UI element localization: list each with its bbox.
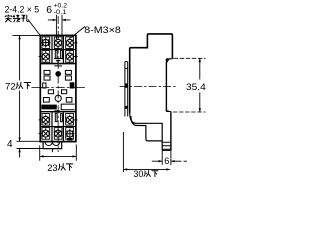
dim 6 side arrows — [152, 160, 187, 162]
center cross below divider — [54, 65, 62, 67]
right face mid — [165, 59, 167, 112]
upper pin squares right — [65, 70, 71, 74]
small tab below band — [54, 110, 60, 112]
dim 23 ext lines — [40, 145, 77, 161]
front face — [129, 48, 131, 114]
T mark below top block — [56, 60, 60, 64]
front view horizontal centerline — [32, 87, 86, 89]
screw row2 left — [42, 51, 49, 62]
top block row divider — [40, 49, 76, 51]
lower pin squares — [43, 98, 49, 103]
foot outline — [43, 142, 62, 149]
body outline — [40, 35, 76, 141]
flange column — [125, 62, 128, 117]
bottom block columns — [52, 112, 63, 142]
svg-text:6: 6 — [46, 4, 52, 16]
svg-text:6: 6 — [164, 156, 169, 166]
bottom slot bars — [55, 114, 57, 122]
top block column dividers — [52, 35, 63, 63]
hook ladder — [162, 142, 171, 149]
dim 6 ext lines — [56, 15, 62, 36]
squares below centerline — [48, 90, 53, 94]
svg-text:23: 23 — [47, 162, 57, 173]
top terminal block bottom edge — [40, 63, 76, 65]
foot arcs — [45, 142, 60, 146]
screw row1 mid — [55, 38, 62, 49]
bottom block top edge — [40, 111, 76, 113]
top slot bars — [55, 50, 57, 58]
center open circle — [55, 95, 61, 101]
left notch rect — [43, 83, 46, 88]
dim 72 line — [19, 35, 21, 141]
dim 4 lower arrow — [19, 149, 21, 158]
screw crosshair edge ticks — [39, 43, 78, 134]
dim 23 line — [40, 155, 77, 157]
side centerline — [120, 86, 177, 88]
step nub at 111.5 — [166, 110, 171, 112]
right filled latch — [70, 83, 74, 88]
mounting hole top-left — [41, 38, 50, 48]
upper pin squares left — [44, 70, 50, 74]
dim 72 top ext — [13, 34, 41, 36]
screw row4 left — [42, 128, 49, 139]
screw row3 left — [42, 115, 49, 126]
screw row2 right — [66, 51, 73, 62]
screw row1 right — [66, 38, 73, 49]
bottom outer contour — [131, 116, 162, 141]
svg-text:4: 4 — [7, 139, 13, 150]
dim 35.4 ext dashes — [173, 58, 206, 112]
dim 35.4 line — [199, 58, 201, 112]
terminal recess rects top block — [42, 37, 50, 49]
tab below mounting hole — [67, 138, 72, 141]
black band — [41, 105, 56, 110]
svg-text:8-M3×8: 8-M3×8 — [84, 24, 121, 35]
outline top — [130, 34, 173, 59]
svg-text:-0.1: -0.1 — [54, 9, 68, 16]
dim 6 side ext lines — [162, 150, 171, 165]
bottom block row divider — [40, 126, 76, 128]
foot center tick — [51, 149, 53, 153]
svg-text:72: 72 — [5, 81, 16, 92]
dim 30 ext line — [122, 132, 124, 172]
front view vertical centerline — [57, 16, 59, 152]
notch + tooth — [166, 58, 172, 60]
svg-text:30: 30 — [133, 169, 143, 179]
back edge lower — [170, 112, 172, 151]
dim 30 line — [123, 168, 170, 170]
center filled circle — [56, 72, 61, 77]
right open shape — [61, 104, 74, 110]
screw row3 right — [66, 115, 73, 126]
slot top opening ticks — [56, 35, 62, 39]
svg-text:35.4: 35.4 — [186, 82, 206, 92]
mounting hole bottom-right — [65, 129, 74, 139]
leader 8-M3x8 — [71, 27, 86, 39]
label 安装孔 — [5, 15, 12, 22]
dim 6 line + arrows — [48, 19, 71, 21]
dim 4 ext lines — [17, 141, 44, 148]
svg-text:2-4.2 × 5: 2-4.2 × 5 — [5, 4, 40, 14]
terminal recess rects bottom block — [42, 114, 50, 126]
leader 安装孔 — [28, 20, 40, 36]
screw row4 mid — [55, 128, 62, 139]
bottom inner contour — [130, 112, 163, 150]
